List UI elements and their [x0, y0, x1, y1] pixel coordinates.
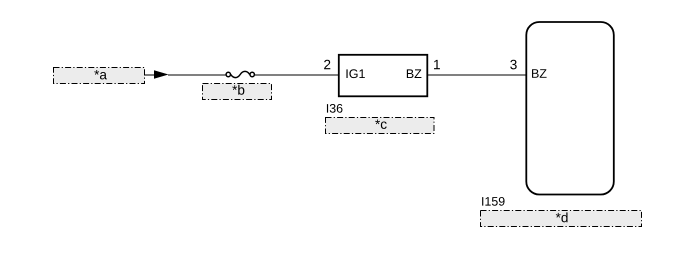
label box *c (connector I36 name)	[326, 118, 435, 134]
wire from fuse to connector I36	[255, 74, 338, 76]
wire from *a to arrowhead	[144, 74, 156, 76]
fuse *b	[226, 71, 254, 77]
label I36	[327, 104, 343, 113]
connector I36 box	[339, 55, 428, 97]
label box *a (power source)	[54, 68, 145, 84]
pin 1	[434, 60, 440, 69]
pin 2	[324, 60, 330, 69]
arrowhead (current flow)	[154, 70, 169, 79]
wire from arrowhead to fuse	[168, 74, 226, 76]
label I159	[482, 197, 504, 206]
wire from I36 to buzzer I159	[428, 74, 526, 76]
label box *d (component I159 name)	[481, 211, 642, 227]
label box *b (fuse name)	[203, 84, 272, 100]
pin 3	[510, 60, 516, 70]
component I159 rounded box (buzzer)	[526, 22, 614, 195]
